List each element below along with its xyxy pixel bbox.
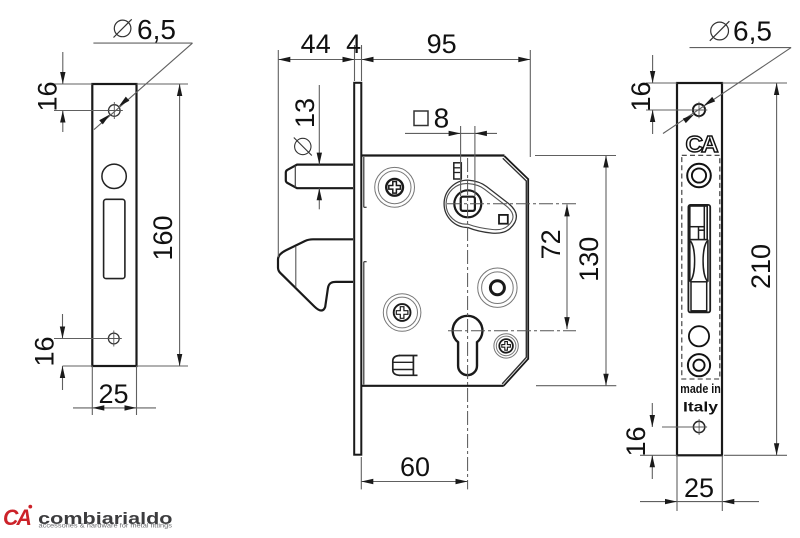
dimension 130 [535, 155, 616, 157]
middle faceplate [354, 83, 361, 455]
svg-text:CA: CA [3, 505, 31, 530]
horizontal centerline through spindle [447, 203, 576, 205]
svg-text:4: 4 [346, 29, 361, 59]
right plate top screw hole [693, 104, 705, 116]
left plate bottom screw hole [108, 333, 119, 344]
dimension 210 right [722, 82, 787, 84]
right faceplate outline [677, 83, 722, 455]
svg-text:made in: made in [680, 381, 721, 396]
bolt waist section [689, 240, 691, 282]
dimension 72 [566, 204, 568, 329]
left plate rectangular slot [104, 199, 125, 278]
dimension 25 bottom-right [676, 455, 678, 511]
euro cylinder profile [453, 316, 483, 375]
screw bottom-left [383, 294, 421, 332]
svg-text:95: 95 [427, 29, 457, 59]
svg-text:44: 44 [301, 29, 331, 59]
svg-text:16: 16 [621, 426, 651, 456]
svg-text:16: 16 [33, 81, 63, 111]
svg-text:CA: CA [686, 131, 718, 157]
svg-text:16: 16 [30, 336, 60, 366]
svg-text:16: 16 [626, 81, 656, 111]
diameter 6,5 label right [710, 21, 730, 41]
right plate bottom screw hole [693, 421, 704, 432]
dimension square 8 [414, 111, 428, 126]
dimension 16 bottom-right [662, 426, 693, 428]
guide pin (13mm) [286, 165, 353, 189]
plain circle hole [689, 326, 709, 346]
hook bolt [278, 239, 353, 310]
svg-text:Italy: Italy [683, 399, 718, 415]
ring hole middle-right [478, 268, 517, 307]
horizontal centerline through cylinder [448, 330, 576, 332]
body chamfer top-right (double line) [505, 156, 529, 179]
svg-text:6,5: 6,5 [733, 16, 772, 47]
screw top-left [375, 167, 415, 207]
svg-text:accessories & hardware for met: accessories & hardware for metal fitting… [39, 523, 173, 530]
retainer bracket bottom-left [399, 356, 418, 376]
dimension 16 top-left [54, 83, 92, 85]
case inner wall [363, 157, 365, 207]
left strike plate outline [92, 84, 136, 366]
left plate latch circle hole [102, 164, 126, 188]
dimension diameter 13 [318, 85, 320, 152]
svg-text:130: 130 [574, 237, 604, 282]
svg-text:72: 72 [536, 229, 566, 259]
svg-text:160: 160 [148, 215, 178, 260]
svg-text:210: 210 [746, 244, 776, 289]
dashed insert outline [682, 155, 720, 379]
dimension 60 [360, 457, 362, 489]
body right edge (double line) [527, 179, 529, 360]
top dimension line 44 / 4 / 95 [277, 50, 279, 257]
svg-text:25: 25 [684, 473, 714, 503]
leader line to top hole left [94, 43, 193, 130]
screw bottom-right small [494, 334, 518, 358]
bolt slot assembly [688, 205, 710, 313]
svg-text:8: 8 [434, 103, 450, 134]
small square hole [499, 215, 508, 224]
svg-text:60: 60 [400, 452, 430, 482]
lower ring hole [688, 354, 710, 376]
spindle circle [454, 190, 481, 217]
leader line to right top hole [663, 48, 791, 134]
spindle square hole 8mm [461, 197, 475, 211]
top ring hole [687, 164, 711, 188]
body chamfer bottom-right (double line) [504, 359, 529, 386]
svg-text:25: 25 [98, 379, 128, 409]
hook bevel edge line [295, 247, 297, 288]
dimension 16 bottom-left [54, 338, 107, 340]
dimension 25 bottom-left [91, 366, 93, 415]
lock body outline [362, 156, 505, 386]
diameter 6,5 label left [114, 19, 132, 37]
follower teardrop cam (double contour) [444, 180, 516, 233]
stacked spring element [454, 163, 462, 179]
left plate top screw hole [109, 105, 121, 117]
vertical centerline [467, 158, 469, 489]
svg-text:13: 13 [290, 98, 320, 128]
dimension 16 top-right [646, 82, 677, 84]
svg-text:6,5: 6,5 [137, 14, 176, 45]
dimension 160 left [137, 83, 189, 85]
